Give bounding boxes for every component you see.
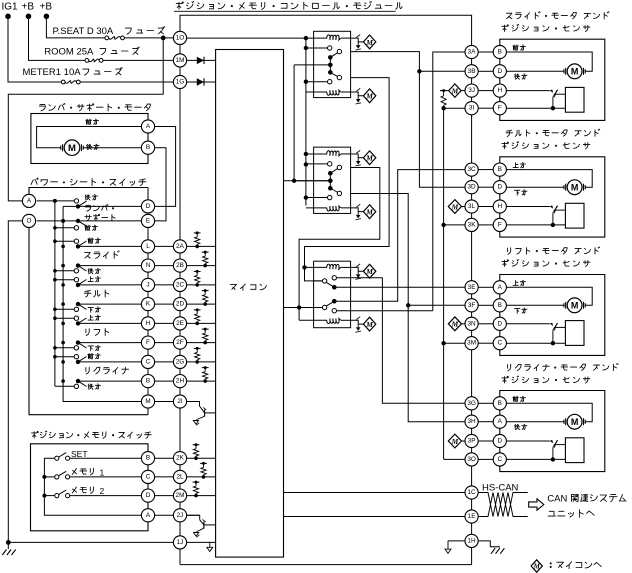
svg-text:3P: 3P [468,438,476,445]
switch contact 後方 (lumbar) [74,195,97,203]
relay RY1 common chain [294,57,333,72]
tilt block pin B [493,163,506,176]
HS-CAN twisted pair [478,493,528,517]
suppressor at 2E [194,308,201,325]
svg-text:M: M [451,87,459,96]
svg-text:C: C [146,473,151,480]
power source +B (1) [22,2,35,20]
relay RY1 changeover top [328,49,342,59]
recliner block pin D [493,434,506,447]
connector pin 2M [173,489,186,502]
connector pin 2H [173,375,186,388]
relay RY1 contact NC bottom [306,80,332,84]
switch arm スライド bottom [76,263,142,271]
recliner block pin A [493,415,506,428]
tilt motor block box [500,157,605,237]
svg-text:HS-CAN: HS-CAN [482,482,519,493]
svg-text:E: E [146,217,150,224]
connector pin 3K [465,218,478,231]
svg-text:3M: 3M [467,340,476,347]
svg-text:2M: 2M [176,492,185,499]
relay RY1 coil (top) [327,35,351,40]
position sensor recliner [506,438,584,463]
label: position memory switch [32,431,152,439]
wire microcomputer to 1E [284,516,466,518]
svg-text:M: M [68,143,76,154]
switch arm リクライナ top [76,357,142,365]
position sensor tilt [506,203,584,228]
wire IG1 to METER1 fuse [8,16,63,82]
wire relay3 NC2 to 3A [433,52,465,311]
svg-text:F: F [146,339,150,346]
connector pin 3L [465,200,478,213]
tilt block pin H [493,200,506,213]
memory switch pin B [141,452,154,465]
arrow to CAN system units [529,499,544,510]
connector pin 2D [173,298,186,311]
suppressor at 2D [202,289,209,306]
svg-text:M: M [365,267,373,276]
connector pin 2F [173,336,186,349]
svg-text:N: N [146,262,151,269]
wire +B to ROOM fuse [29,16,87,60]
switch contact 下方 (チルト) [74,307,100,313]
connector pin 2A [173,240,186,253]
svg-text:M: M [145,398,150,405]
connector pin 1O [173,31,186,44]
svg-text:D: D [497,184,502,191]
slide motor block box [500,39,605,120]
switch pin O (common) [22,214,35,227]
svg-text:3A: 3A [468,49,477,56]
svg-text:P.SEAT D 30A: P.SEAT D 30A [53,26,114,37]
relay RY1 coil top output to microcomputer [351,35,376,51]
label: position memory control module [174,1,402,11]
label 後方 (lumbar backward) [87,144,99,150]
wire switch J to module [155,284,174,286]
wire memory switch C to module [155,476,174,478]
label: power seat switch [31,178,146,186]
wire pin 2E to microcomputer [187,322,216,324]
svg-text:D: D [497,320,502,327]
wire relay3 bottom dot to 3C [334,170,465,302]
svg-text:M: M [571,417,579,427]
wire lift motor terminal 2 [506,304,563,306]
wire relay2 bottom output to 3F and 3H [351,193,465,421]
svg-text:B: B [498,400,502,407]
wire ROOM fuse to pin 1M [103,59,173,61]
svg-text:2E: 2E [176,320,184,327]
wire pin 2F to microcomputer [187,342,216,344]
wire pin 2B to microcomputer [187,265,216,267]
motor M lumbar [61,140,83,156]
svg-text:D: D [146,492,151,499]
label: lift motor and position sensor [502,247,600,267]
wire lift motor terminal 1 [506,287,592,305]
svg-text:METER1 10A: METER1 10A [23,67,82,78]
module box: position memory control module boundary [180,15,472,45]
svg-text:A: A [146,512,151,519]
memory switch pin A [141,509,154,522]
svg-text:B: B [498,302,502,309]
wire 1H right ground [478,541,504,554]
suppressor at 2K [193,443,200,460]
label: tilt motor and position sensor [502,129,600,149]
svg-text:2: 2 [100,486,105,496]
connector pin 2B [173,259,186,272]
connector pin 1J [173,536,186,549]
connector pin 3C [465,163,478,176]
slide block pin B [493,45,506,58]
label 上方 (tilt) [513,163,525,168]
relay RY2 common chain [294,173,333,188]
wire switch C to module [155,361,174,363]
suppressor at 2L [200,462,207,479]
wire 3P to motor block [478,440,493,442]
recliner block pin B [493,397,506,410]
suppressor at 2B [202,251,209,268]
label リフト [86,329,109,336]
svg-text:F: F [498,105,502,112]
label スライド [85,251,120,259]
relay RY1 coil (bottom) [306,90,351,95]
lift block pin A [493,281,506,294]
power seat switch box [29,188,148,415]
slide block pin D [493,65,506,78]
label: CAN related system units [547,494,626,518]
wire P.SEAT output down-left to switch pin A [8,38,163,201]
wire 3G to motor block [478,402,493,404]
svg-text:2F: 2F [176,339,184,346]
svg-text:2B: 2B [176,262,184,269]
switch pin F [141,336,154,349]
wire pin 1J to microcomputer with ground arrow [187,542,216,551]
connector pin 3P [465,434,478,447]
relay common bus to microcomputer [284,65,331,183]
svg-text:2G: 2G [176,358,185,365]
svg-text:M: M [571,300,579,310]
connector pin 3M [465,337,478,350]
wire 3C to motor block [478,169,493,171]
svg-text:M: M [451,202,459,211]
wire 3K to motor block [478,224,493,226]
lift block pin B [493,299,506,312]
wire tilt motor terminal 1 [506,170,592,188]
wire lumbar B to switch row E [155,148,166,221]
switch contact 上方 (リフト) [74,315,100,320]
svg-text:A: A [498,418,503,425]
wire pin 2D to microcomputer [187,303,216,305]
wire tilt motor terminal 2 [506,186,563,188]
svg-text:3I: 3I [469,105,475,112]
relay RY1 changeover bottom [328,70,342,80]
svg-text:3J: 3J [468,87,475,94]
connector pin 3N [465,317,478,330]
lift block pin C [493,337,506,350]
svg-text:3E: 3E [468,284,476,291]
relay RY3 coil (top) [305,264,351,269]
wire 3F to motor block [478,304,493,306]
wire switch pin O to ground rail [6,221,23,545]
relay RY2 coil bottom output to microcomputer [351,204,376,220]
switch pin C [141,355,154,368]
svg-text:M: M [365,320,373,329]
label: recliner motor and position sensor [502,363,618,383]
relay power bus from 1O [304,38,308,205]
connector pin 3I [465,102,478,115]
svg-text:K: K [146,301,151,308]
svg-text:M: M [533,562,541,570]
switch pin E [141,214,154,227]
svg-text:D: D [146,203,151,210]
svg-text:F: F [498,221,502,228]
switch box right edge (pin column) [147,188,149,415]
svg-text:1H: 1H [468,537,477,544]
svg-text:3F: 3F [468,302,476,309]
wire slide motor terminal 1 [506,52,592,71]
svg-text:M: M [365,154,373,163]
switch contact 前方 (リクライナ) [74,354,100,360]
wire switch B to module [155,380,174,382]
connector pin 3J [465,84,478,97]
connector pin 2G [173,355,186,368]
position sensor slide [506,87,584,112]
motor M recliner [564,414,585,429]
power source IG1 [2,2,19,20]
switch contact 後方 (リクライナ) [74,384,100,390]
svg-text:3O: 3O [467,456,476,463]
switch pin H [141,317,154,330]
label: slide motor and position sensor [502,12,609,32]
lift motor block box [500,275,605,356]
switch arm リフト bottom [76,340,142,348]
svg-text:C: C [497,456,502,463]
svg-text:2I: 2I [177,398,183,405]
relay RY1 box [314,31,351,97]
relay RY2 coil (top) [306,151,351,156]
module left boundary wire (pin column) [179,45,181,565]
memory switch pin C [141,470,154,483]
connector pin 2J [173,509,186,522]
memory switch pin D [141,489,154,502]
diode D2 (1G) [187,78,216,85]
svg-text:B: B [498,49,502,56]
label チルト [84,290,109,297]
wire METER1 fuse to pin 1G [80,81,173,83]
svg-text:A: A [27,197,32,204]
svg-text:B: B [146,144,150,151]
connector pin 3O [465,453,478,466]
wire microcomputer to 1C [284,492,466,494]
svg-text:2K: 2K [176,455,185,462]
svg-text:+B: +B [22,2,35,13]
diamond at 3P [448,434,465,448]
connector pin 2E [173,317,186,330]
switch arm リフト top [76,318,142,326]
relay RY3 coil (bottom) [299,319,351,324]
connector pin 3B [465,65,478,78]
svg-text:3B: 3B [468,68,476,75]
switch arm D row [76,201,142,208]
wire lumbar A to switch row D [155,127,176,207]
switch pin M [141,395,154,408]
switch memory 1 [55,467,142,479]
svg-text:1G: 1G [176,79,185,86]
relay RY3 coil top output to microcomputer [351,264,376,280]
switch contact 下方 (リフト) [74,345,100,351]
switch O-bus (common) [37,206,142,401]
relay RY2 changeover top [328,165,342,175]
svg-text:1C: 1C [468,489,477,496]
svg-text:2D: 2D [176,301,185,308]
wire pin 2L to microcomputer [187,476,216,478]
svg-text:CAN: CAN [547,494,567,505]
wire 3I to motor block [478,107,493,109]
slide block pin H [493,84,506,97]
svg-text:1M: 1M [176,57,185,64]
wire pin 2H to microcomputer [187,380,216,382]
relay RY3 top changeover [314,276,383,290]
wire pin 2G to microcomputer [187,361,216,363]
switch arm チルト top [76,280,142,288]
svg-text:3H: 3H [468,418,477,425]
motor M tilt [564,180,585,195]
label: lumbar support motor [39,103,150,111]
connector pin 3E [465,281,478,294]
svg-text:M: M [571,66,579,76]
suppressor at 2G [194,347,201,364]
wire lumbar pin A to motor [37,127,142,148]
svg-text:2J: 2J [177,512,184,519]
label ランバ・サポート [85,205,115,221]
svg-text:M: M [451,320,459,329]
svg-text:1J: 1J [177,539,184,546]
recliner block pin C [493,453,506,466]
label 下方 (lift) [515,308,528,314]
svg-text:3G: 3G [467,400,476,407]
wire 3E to motor block [478,286,493,288]
wire switch K to module [155,303,174,305]
connector pin 3G [465,397,478,410]
switch SET [55,449,142,460]
wire switch N to module [155,265,174,267]
svg-text:3D: 3D [468,184,477,191]
connector pin 2C [173,278,186,291]
lumbar pin B [141,141,154,154]
legend diamond: to microcomputer [531,560,601,572]
position sensor lift [506,321,584,346]
svg-text:3L: 3L [468,203,476,210]
connector pin 1E [465,510,478,523]
microcomputer (maikon) box [216,50,284,558]
svg-text:1O: 1O [176,34,185,41]
switch arm スライド top [76,241,142,249]
svg-text:O: O [27,217,32,224]
motor M slide [564,64,585,79]
switch pin B [141,375,154,388]
switch pin L [141,240,154,253]
svg-text:3N: 3N [468,320,477,327]
svg-text:3K: 3K [468,221,477,228]
suppressor at 2C [194,270,201,287]
svg-text:A: A [146,123,151,130]
svg-text:D: D [497,438,502,445]
suppressor at 2A [194,231,201,248]
wire memory switch D to module [155,495,174,497]
sensor common wire 3I-3K-3M-3O [441,106,465,459]
wire 1H left ground arrow [445,541,465,554]
diode D1 (1M) [187,57,216,64]
switch arm チルト bottom [76,302,142,310]
wire pin 2A to microcomputer [187,245,216,247]
relay RY2 contact NC top [306,162,332,166]
svg-text:C: C [497,340,502,347]
label 前方 (slide) [513,45,526,51]
svg-text:M: M [451,437,459,446]
relay RY2 box [314,147,351,213]
wire pin 2K to microcomputer [187,457,216,459]
svg-text:2C: 2C [176,281,185,288]
fuse P.SEAT D 30A [53,26,165,40]
wire memory switch B to module [155,457,174,459]
switch arm E row [76,219,142,226]
switch arm リクライナ bottom [76,379,142,387]
switch A-bus (power feed) [37,199,77,386]
tilt block pin F [493,218,506,231]
lumbar pin A [141,120,154,133]
wire 3M to motor block [478,342,493,344]
fuse ROOM 25A [44,47,139,63]
connector pin 1G [173,75,186,88]
wire switch M to module [155,401,174,403]
lumbar support motor box [31,114,148,164]
diamond at 3N [448,317,465,331]
lift block pin D [493,317,506,330]
svg-text:H: H [497,87,502,94]
ground (bottom left) [2,542,15,555]
connector pin 3H [465,415,478,428]
wire 3N to motor block [478,323,493,325]
svg-text:D: D [497,68,502,75]
switch contact 前方 (スライド) [74,238,100,244]
module bottom boundary wire [180,564,472,566]
svg-text:1: 1 [100,467,105,477]
label 前方 (lumbar forward) [86,119,99,125]
wire pin 2M to microcomputer [187,495,216,497]
switch contact 後方 (スライド) [74,268,100,274]
relay RY2 contact NC bottom [306,195,332,199]
svg-text:SET: SET [71,449,88,459]
wire recliner motor terminal 2 [506,421,563,423]
wire recliner motor terminal 1 [506,403,592,421]
svg-text:1E: 1E [468,513,476,520]
tilt block pin D [493,181,506,194]
switch pin K [141,298,154,311]
connector pin 2I [173,395,186,408]
wire pin 2C to microcomputer [187,284,216,286]
label HS-CAN [482,482,519,493]
svg-text:+B: +B [40,2,53,13]
svg-text:IG1: IG1 [2,2,19,13]
module right boundary wire (pin column) [471,59,473,565]
transistor at 2J [187,515,216,537]
label リクライナ [86,367,129,374]
connector pin 2L [173,470,186,483]
label 下方 (tilt) [515,190,528,196]
suppressor at 2H [202,366,209,383]
wire P.SEAT fuse to pin 1O [124,36,173,41]
connector pin 1H [465,534,478,547]
